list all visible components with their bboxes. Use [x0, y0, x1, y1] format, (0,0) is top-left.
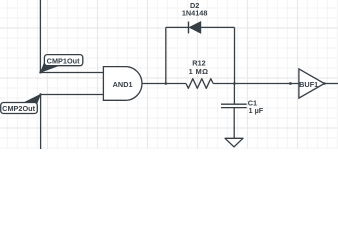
wire C1 top lead: [233, 84, 235, 105]
svg-text:CMP1Out: CMP1Out: [47, 56, 80, 65]
wire CMP1Out to AND1 input A: [40, 72, 103, 74]
AND gate AND1: [103, 67, 142, 101]
ground symbol: [225, 138, 243, 147]
wire BUF1 output: [324, 83, 338, 85]
node BUF1 apex: [323, 82, 326, 85]
svg-text:1 MΩ: 1 MΩ: [189, 67, 209, 76]
diode D2 cathode bar: [188, 22, 190, 34]
svg-text:AND1: AND1: [113, 80, 133, 89]
resistor R12 zigzag: [186, 79, 213, 89]
capacitor C1 top plate: [221, 103, 247, 105]
wire CMP1Out vertical: [39, 0, 41, 73]
wire diode loop left vertical: [165, 27, 167, 83]
node endpoint dot before BUF1: [289, 82, 292, 85]
wire CMP2Out vertical: [40, 95, 42, 150]
node junction diode right / C1: [233, 82, 236, 85]
node CMP2Out corner: [39, 93, 41, 95]
wire diode loop right vertical: [234, 27, 236, 83]
svg-text:BUF1: BUF1: [299, 80, 318, 89]
node junction diode left: [165, 82, 168, 85]
svg-text:CMP2Out: CMP2Out: [2, 104, 35, 113]
wire diode top left: [166, 26, 189, 28]
wire resistor to buffer: [213, 83, 299, 85]
svg-text:1N4148: 1N4148: [182, 9, 208, 18]
wire CMP2Out to AND1 input B: [41, 94, 104, 96]
wire C1 bottom lead: [233, 108, 235, 139]
svg-text:1 µF: 1 µF: [249, 106, 264, 115]
capacitor C1 bottom plate: [221, 107, 247, 109]
wire diode top right: [201, 26, 235, 28]
label CMP2Out: [1, 95, 41, 114]
diode D2 triangle: [189, 22, 201, 34]
buffer BUF1 triangle: [299, 69, 325, 98]
node CMP1Out corner: [39, 71, 41, 73]
wire AND1 output to resistor: [142, 83, 186, 85]
label CMP1Out: [41, 55, 83, 73]
